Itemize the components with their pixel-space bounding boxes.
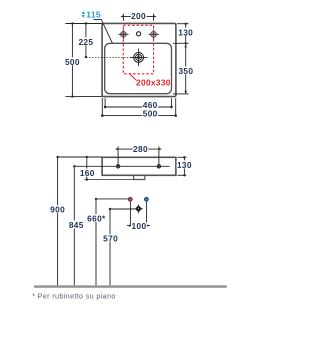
fixing hole right [157, 165, 161, 169]
dimension 500 (plan left) [65, 22, 102, 98]
fixing hole left [116, 165, 120, 169]
dimension 500 (plan bottom) [101, 98, 177, 117]
dimension 900 (floor to rim) [56, 156, 102, 285]
svg-text:* Per rubinetto su piano: * Per rubinetto su piano [32, 291, 116, 300]
tap hole right [149, 29, 159, 39]
svg-text:500: 500 [65, 57, 80, 67]
dimension 660* (floor to water supplies) [95, 198, 128, 286]
dimension 350 (plan right) [173, 44, 189, 94]
svg-text:115: 115 [86, 9, 101, 19]
basin front rectangle [102, 157, 176, 175]
fixing holes centreline [74, 165, 169, 167]
dimension 130 (plan right) [173, 23, 189, 45]
svg-text:200x330: 200x330 [136, 77, 171, 87]
svg-text:350: 350 [178, 66, 193, 76]
svg-text:500: 500 [143, 109, 158, 119]
svg-text:900: 900 [50, 205, 65, 215]
dimension 130 (front right) [178, 156, 187, 176]
drain connection (black diamond) [134, 204, 143, 213]
centre dash-dot line through drain [86, 56, 131, 58]
svg-text:160: 160 [80, 168, 95, 178]
red leader line [130, 74, 137, 80]
svg-text:660*: 660* [87, 214, 106, 224]
svg-text:225: 225 [78, 37, 93, 47]
small centre hole (plan view) [137, 32, 141, 36]
svg-text:130: 130 [177, 160, 192, 170]
basin outer square (plan view) [102, 23, 176, 96]
hot water supply (red dot) [128, 197, 132, 201]
svg-text:130: 130 [178, 27, 193, 37]
dimension 200 (tap hole spacing, top) [120, 14, 156, 21]
dimension 845 (floor to fixing holes) [73, 165, 75, 285]
dimension 225 (plan left) [85, 22, 87, 58]
svg-text:200: 200 [131, 11, 146, 21]
drain symbol (plan view) [130, 49, 148, 67]
dimension 570 (floor to drain) [109, 208, 135, 285]
extension line at stub bottom [85, 179, 134, 181]
dimension 160 (front left) [86, 156, 88, 181]
tap hole left [118, 29, 128, 39]
leader line for 115 note [94, 19, 113, 43]
floor line [34, 285, 227, 287]
svg-text:845: 845 [69, 220, 84, 230]
svg-text:570: 570 [103, 234, 118, 244]
svg-text:280: 280 [133, 144, 148, 154]
waste outlet stub [134, 175, 145, 179]
dimension 460 (plan bottom) [104, 98, 173, 108]
dimension 100 (supply spacing) [127, 202, 150, 227]
dimension 280 (front top) [115, 146, 162, 166]
label 115 (blue) with up-down arrow [82, 9, 101, 19]
svg-text:100: 100 [132, 221, 147, 231]
cold water supply (blue dot) [145, 197, 149, 201]
basin inner bowl (plan view) [105, 43, 172, 93]
red dashed cut-out rectangle 200x330 [123, 25, 153, 74]
